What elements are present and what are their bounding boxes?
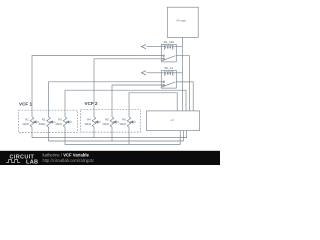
svg-text:VCF 1: VCF 1	[19, 102, 32, 107]
svg-text:katherine / VCF Variable: katherine / VCF Variable	[43, 152, 90, 157]
wire R6 bottom stub	[128, 127, 130, 144]
node flag F2	[141, 71, 146, 75]
svg-text:10kΩ: 10kΩ	[84, 122, 91, 126]
potentiometer R5	[102, 117, 119, 127]
potentiometer R1	[22, 117, 39, 127]
svg-text:vcf: vcf	[170, 118, 174, 122]
svg-text:ATmega: ATmega	[176, 18, 186, 22]
VCF 2 block	[81, 101, 141, 132]
wire flag1 to RL_110 coil	[146, 46, 161, 48]
svg-text:R5: R5	[105, 117, 109, 121]
wire RL_11 common to main box	[176, 82, 193, 111]
potentiometer R2	[39, 117, 56, 127]
wire RL_11 coil right to MCU line	[176, 72, 182, 74]
svg-text:VCF 2: VCF 2	[85, 101, 98, 106]
svg-text:R4: R4	[87, 117, 91, 121]
footer bar	[0, 151, 220, 166]
wire VCF1 R1 top to RL_110 throw A	[32, 56, 164, 117]
wire bottom bus 1 (R1/R4 bottoms)	[32, 127, 187, 138]
wire bottom bus 2 (R2/R5 bottoms)	[49, 127, 184, 141]
svg-text:http://circuitlab.com/c/dnjp3c: http://circuitlab.com/c/dnjp3c	[43, 158, 95, 163]
relay RL_11	[161, 66, 176, 88]
wire R5 bottom stub	[111, 127, 113, 141]
VCF 1 block	[19, 102, 78, 133]
wire flag2 to RL_11 coil	[146, 72, 161, 74]
wire VCF1 R3 top to main box	[65, 90, 186, 117]
svg-text:R6: R6	[122, 117, 126, 121]
wire VCF2 R4 top to RL_110 throw B	[94, 59, 164, 117]
svg-text:10kΩ: 10kΩ	[22, 122, 29, 126]
potentiometer R4	[84, 117, 101, 127]
wire bottom bus 3 (R3/R6 bottoms)	[65, 127, 180, 144]
node flag F1	[141, 45, 146, 49]
relay RL_110	[161, 40, 176, 62]
svg-text:10kΩ: 10kΩ	[119, 122, 126, 126]
svg-text:RL_110: RL_110	[164, 40, 175, 44]
op-amp U1 MCU box	[167, 7, 198, 37]
wire VCF2 R6 top to main box	[129, 93, 177, 117]
svg-text:10kΩ: 10kΩ	[55, 122, 62, 126]
main filter box U2	[147, 111, 200, 131]
svg-text:10kΩ: 10kΩ	[102, 122, 109, 126]
wire RL_110 common to main box	[176, 56, 189, 111]
potentiometer R3	[55, 117, 72, 127]
svg-text:R2: R2	[42, 117, 46, 121]
svg-text:R1: R1	[25, 117, 29, 121]
wire VCF2 R5 top to RL_11 throw B	[112, 85, 164, 117]
wire R4 bottom stub	[93, 127, 95, 138]
wire MCU to coils vertical	[181, 37, 183, 111]
wire VCF1 R2 top to RL_11 throw A	[49, 82, 164, 117]
svg-text:R3: R3	[58, 117, 62, 121]
svg-text:LAB: LAB	[26, 159, 38, 165]
wire RL_110 coil right to MCU line	[176, 46, 182, 48]
svg-text:RL_11: RL_11	[164, 66, 173, 70]
potentiometer R6	[119, 117, 136, 127]
svg-text:10kΩ: 10kΩ	[39, 122, 46, 126]
